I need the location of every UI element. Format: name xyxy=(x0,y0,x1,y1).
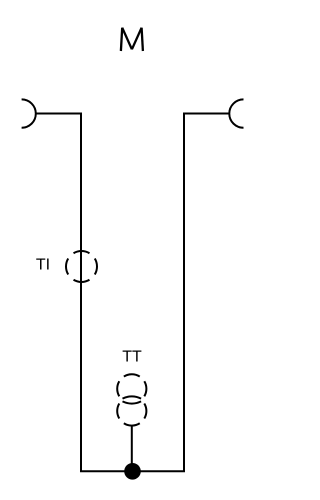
node M (motor net label) xyxy=(121,28,143,51)
wire: right vertical branch xyxy=(183,113,185,473)
svg-text:TT: TT xyxy=(122,349,142,366)
wire: right connector to right corner xyxy=(183,113,230,115)
wire: bottom horizontal bus xyxy=(80,470,185,472)
wire: left connector to left corner xyxy=(36,113,83,115)
left supply connector (arc) xyxy=(22,99,36,127)
svg-text:TI: TI xyxy=(36,257,50,274)
right supply connector (arc) xyxy=(229,99,243,127)
wire: TT to bottom bus xyxy=(131,426,133,472)
voltage transformer TT primary winding (dashed circle) xyxy=(117,374,146,403)
current transformer TI (dashed circle) xyxy=(66,251,97,282)
junction node (solder dot) xyxy=(124,463,141,480)
wire: left vertical branch xyxy=(80,113,82,473)
voltage transformer TT secondary winding (dashed circle) xyxy=(117,396,146,425)
